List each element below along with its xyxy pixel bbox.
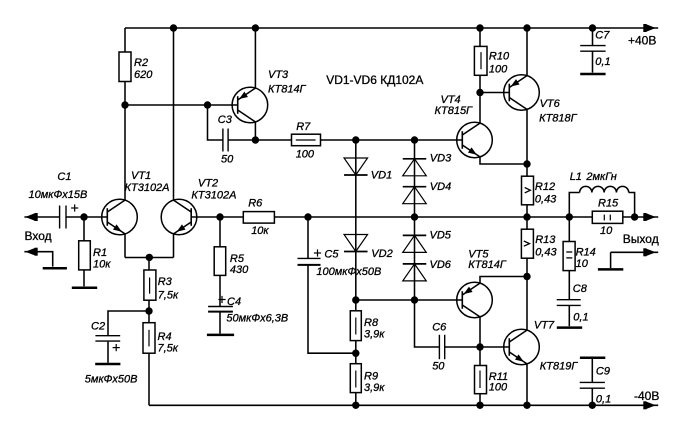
svg-text:R8: R8 xyxy=(364,317,379,329)
svg-text:7,5к: 7,5к xyxy=(158,343,179,355)
svg-text:R3: R3 xyxy=(158,276,173,288)
svg-text:VT6: VT6 xyxy=(540,98,561,110)
svg-text:R6: R6 xyxy=(248,198,263,210)
svg-text:R15: R15 xyxy=(598,198,619,210)
svg-text:R10: R10 xyxy=(489,51,510,63)
svg-text:L1: L1 xyxy=(570,171,582,183)
svg-text:VD1-VD6 КД102А: VD1-VD6 КД102А xyxy=(326,73,423,87)
svg-text:Вход: Вход xyxy=(25,229,52,243)
svg-text:50: 50 xyxy=(221,154,234,166)
svg-text:КТ3102А: КТ3102А xyxy=(191,190,236,202)
svg-text:R1: R1 xyxy=(93,247,107,259)
svg-text:50: 50 xyxy=(432,360,445,372)
svg-text:C2: C2 xyxy=(91,321,105,333)
svg-text:10: 10 xyxy=(600,225,613,237)
svg-text:КТ818Г: КТ818Г xyxy=(539,113,578,125)
svg-text:10: 10 xyxy=(576,258,589,270)
svg-text:VD1: VD1 xyxy=(371,170,392,182)
svg-text:430: 430 xyxy=(230,264,249,276)
svg-text:10к: 10к xyxy=(251,225,269,237)
svg-text:3,9к: 3,9к xyxy=(364,329,385,341)
svg-text:VD6: VD6 xyxy=(430,259,452,271)
svg-text:-40В: -40В xyxy=(634,389,659,403)
svg-text:VT3: VT3 xyxy=(268,69,289,81)
svg-text:C9: C9 xyxy=(596,366,610,378)
svg-text:VT2: VT2 xyxy=(198,178,218,190)
svg-text:7,5к: 7,5к xyxy=(158,290,179,302)
svg-text:100: 100 xyxy=(296,149,315,161)
svg-text:5мкФх50В: 5мкФх50В xyxy=(85,374,138,386)
svg-text:100мкФх50В: 100мкФх50В xyxy=(316,266,381,278)
svg-text:КТ814Г: КТ814Г xyxy=(268,84,307,96)
svg-text:0,1: 0,1 xyxy=(573,311,588,323)
svg-text:0,43: 0,43 xyxy=(535,247,557,259)
svg-text:VD2: VD2 xyxy=(371,248,392,260)
svg-text:R14: R14 xyxy=(576,247,596,259)
svg-text:R13: R13 xyxy=(535,234,556,246)
svg-text:100: 100 xyxy=(489,382,508,394)
svg-text:R12: R12 xyxy=(535,181,555,193)
svg-text:R4: R4 xyxy=(158,331,172,343)
svg-text:10мкФх15В: 10мкФх15В xyxy=(29,189,88,201)
svg-text:R2: R2 xyxy=(134,57,148,69)
svg-text:КТ814Г: КТ814Г xyxy=(468,259,507,271)
svg-text:620: 620 xyxy=(134,69,153,81)
svg-text:VD4: VD4 xyxy=(430,181,451,193)
svg-text:Выход: Выход xyxy=(623,232,659,246)
svg-text:КТ815Г: КТ815Г xyxy=(435,105,474,117)
svg-text:C4: C4 xyxy=(227,296,241,308)
svg-text:VD5: VD5 xyxy=(430,230,452,242)
svg-text:КТ819Г: КТ819Г xyxy=(540,361,579,373)
svg-text:10к: 10к xyxy=(93,259,111,271)
svg-text:VD3: VD3 xyxy=(430,152,452,164)
svg-text:0,43: 0,43 xyxy=(535,194,557,206)
svg-text:КТ3102А: КТ3102А xyxy=(125,182,170,194)
svg-text:C1: C1 xyxy=(57,171,71,183)
svg-text:R9: R9 xyxy=(364,371,378,383)
svg-text:+40В: +40В xyxy=(628,34,656,48)
svg-text:C8: C8 xyxy=(573,283,588,295)
svg-text:R7: R7 xyxy=(296,121,311,133)
svg-text:0,1: 0,1 xyxy=(595,56,610,68)
svg-text:C3: C3 xyxy=(218,114,233,126)
svg-text:3,9к: 3,9к xyxy=(364,382,385,394)
svg-text:VT7: VT7 xyxy=(534,320,555,332)
svg-text:VT1: VT1 xyxy=(131,170,151,182)
svg-text:C7: C7 xyxy=(595,30,610,42)
svg-text:100: 100 xyxy=(489,63,508,75)
svg-text:2мкГн: 2мкГн xyxy=(585,171,616,183)
svg-text:C6: C6 xyxy=(432,322,447,334)
svg-text:C5: C5 xyxy=(324,248,339,260)
svg-text:50мкФх6,3В: 50мкФх6,3В xyxy=(226,313,288,325)
svg-text:0,1: 0,1 xyxy=(596,393,611,405)
